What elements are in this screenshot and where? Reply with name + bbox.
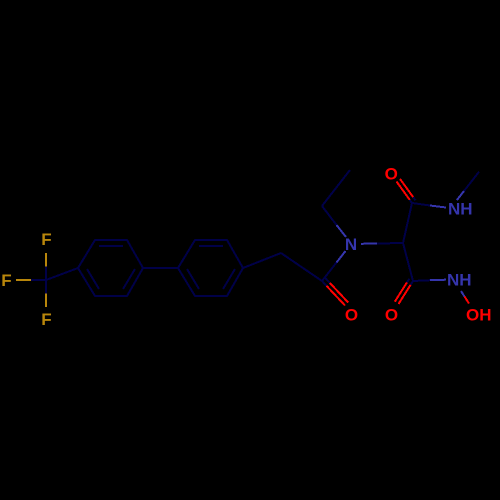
bottom C=O double bond (carbon halves) — [411, 281, 413, 285]
acyl C=O double bond (oxygen halves, red) — [327, 286, 345, 306]
bond top carbonyl C to NH (carbon half) — [412, 203, 430, 206]
bond C(F3)-F bottom (carbon half) — [45, 280, 47, 294]
ring1 double bond inner lower-left — [87, 269, 99, 289]
bond NH to OH (nitrogen half, blue) — [461, 291, 465, 297]
ring2 double bond inner top — [199, 245, 223, 247]
svg-text:F: F — [41, 230, 51, 249]
ring1 benzene outline — [78, 240, 143, 296]
ring2 double bond inner lower-left — [187, 269, 199, 289]
bond N to central CH (nitrogen half, blue) — [361, 243, 377, 245]
bond N to ethyl CH2 (nitrogen half, blue) — [337, 225, 347, 237]
bond acyl C to N (carbon half) — [322, 263, 337, 282]
top C=O double bond (carbon halves) — [410, 200, 412, 203]
ring1 double bond inner lower-right — [123, 269, 135, 289]
svg-text:OH: OH — [466, 306, 492, 325]
bond N to ethyl CH2 (carbon half) — [322, 206, 337, 225]
biphenyl bond ring1-ring2 — [143, 267, 178, 269]
bond C(F3)-F left (gold half) — [16, 279, 31, 281]
bond ring2 to CH2 — [243, 253, 281, 268]
bond acyl C to N (nitrogen half, blue) — [337, 251, 346, 263]
svg-text:N: N — [345, 235, 357, 254]
bottom C=O double bond (oxygen halves, red) — [399, 285, 411, 304]
ring2 benzene outline — [178, 240, 243, 296]
bond N to central CH (carbon half) — [377, 242, 403, 245]
bond CH2 to acyl C — [281, 253, 322, 281]
ring2 double bond inner lower-right — [223, 269, 235, 289]
bond top carbonyl C to NH (nitrogen half, blue) — [430, 206, 446, 208]
svg-text:O: O — [345, 306, 358, 325]
svg-text:O: O — [385, 165, 398, 184]
bond CF3 to ring1 — [46, 268, 78, 280]
svg-text:NH: NH — [448, 200, 473, 219]
top C=O double bond (oxygen halves, red) — [397, 182, 410, 200]
ring1 double bond inner top — [99, 245, 123, 247]
acyl C=O double bond (carbon halves) — [322, 281, 327, 286]
bond central CH to top carbonyl C — [403, 203, 412, 243]
bond C(F3)-F left (carbon half) — [31, 279, 46, 281]
bond C(F3)-F top (gold half) — [45, 253, 47, 267]
bond C(F3)-F bottom (gold half) — [45, 294, 47, 308]
svg-text:F: F — [41, 310, 51, 329]
svg-text:O: O — [385, 306, 398, 325]
bond central CH to bottom carbonyl C — [403, 243, 413, 281]
bond bottom carbonyl C to NH (nitrogen half, blue) — [430, 279, 446, 282]
bond NH to OH (oxygen half, red) — [465, 297, 470, 304]
svg-text:NH: NH — [447, 271, 472, 290]
bond NH to N-methyl (nitrogen half, blue) — [457, 191, 464, 200]
svg-text:F: F — [1, 271, 11, 290]
bond ethyl CH2 to CH3 — [322, 170, 350, 206]
bond bottom carbonyl C to NH (carbon half) — [413, 279, 430, 282]
bond C(F3)-F top (carbon half) — [45, 267, 47, 281]
bond NH to N-methyl (carbon half) — [464, 172, 479, 191]
